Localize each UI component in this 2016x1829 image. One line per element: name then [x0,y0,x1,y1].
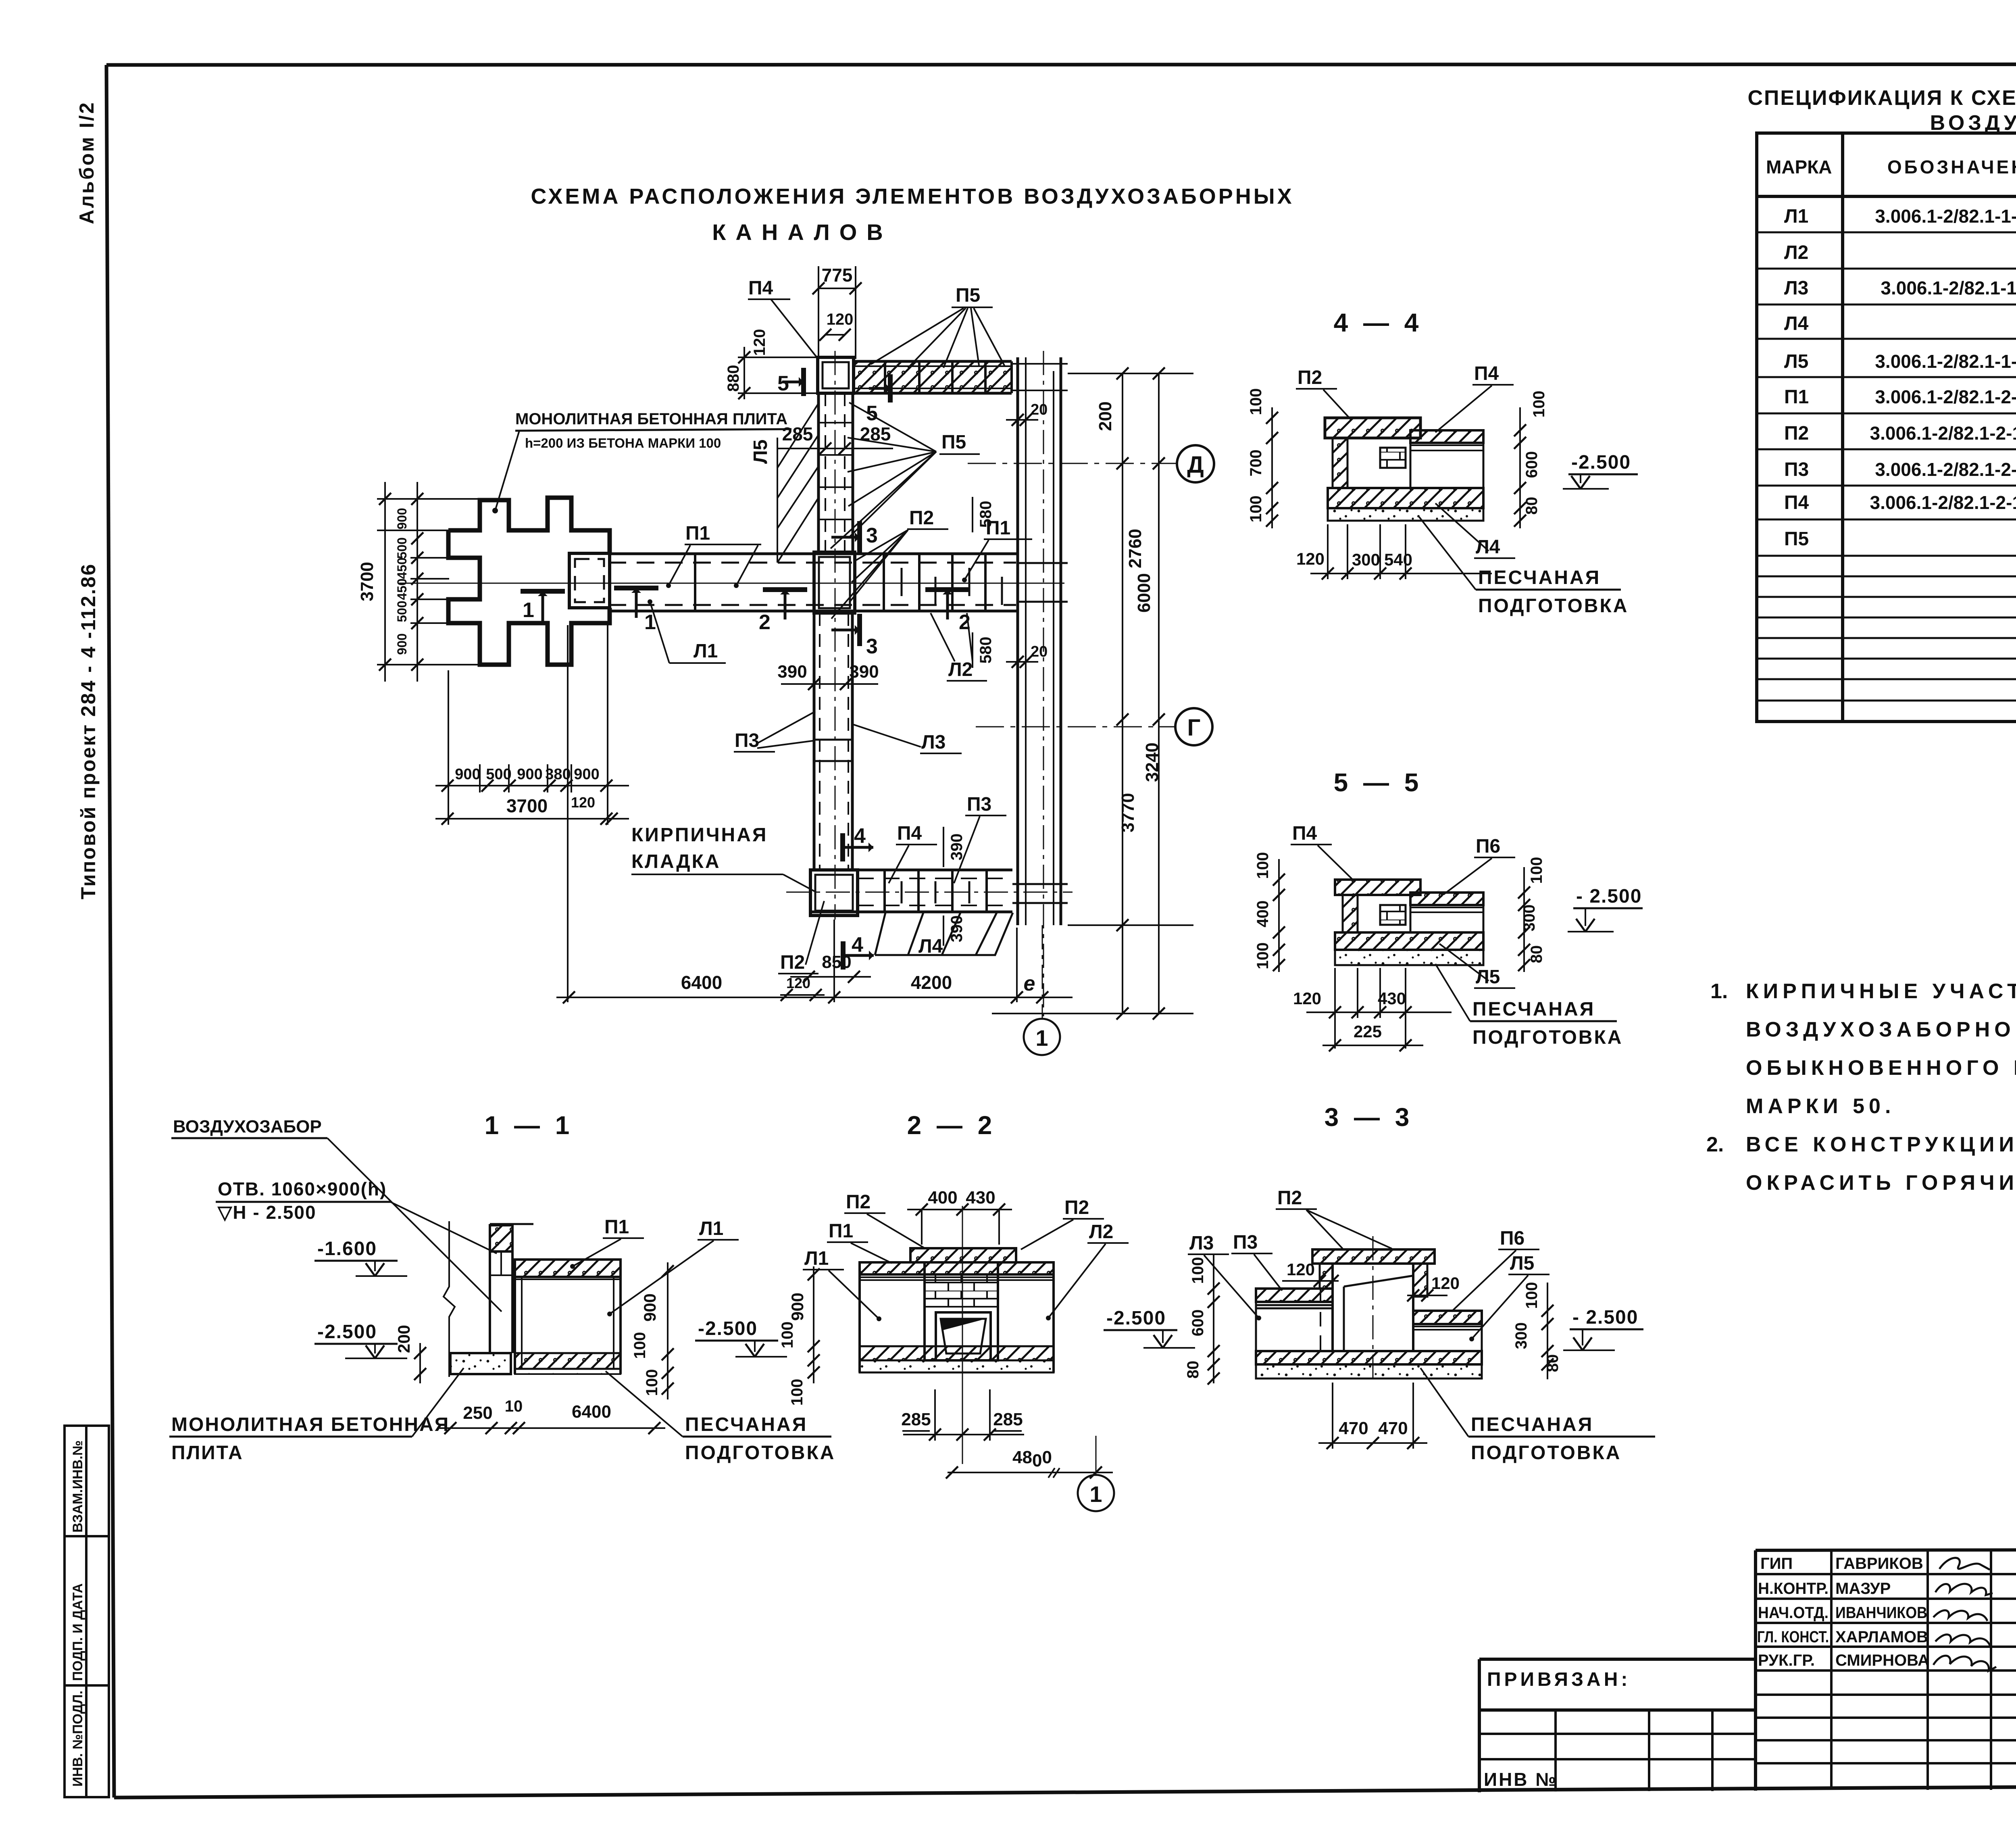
svg-text:3.006.1-2/82.1-2-1.0-018: 3.006.1-2/82.1-2-1.0-018 [1870,492,2016,513]
lower channel left end box [810,870,858,916]
svg-text:П3: П3 [735,730,759,751]
cut mark 3 pair [857,521,862,553]
section 5-5 top plate P4 [1335,880,1420,895]
svg-text:П2: П2 [909,507,934,529]
svg-text:80: 80 [1528,945,1545,964]
section 4-4 brick block [1380,448,1406,468]
svg-text:285: 285 [782,423,813,444]
svg-text:П3: П3 [1233,1232,1258,1253]
svg-text:ГИП: ГИП [1760,1555,1793,1572]
svg-text:ВСЕ КОНСТРУКЦИИ СОПРИКАСАЮЩИЕС: ВСЕ КОНСТРУКЦИИ СОПРИКАСАЮЩИЕСЯ С ГРУНТО… [1746,1133,2016,1156]
svg-text:Н.КОНТР.: Н.КОНТР. [1758,1580,1829,1598]
svg-text:МАРКА: МАРКА [1766,156,1832,177]
main bottom dim line 6400/4200 [556,920,1073,1002]
svg-text:430: 430 [1378,989,1406,1008]
section 3-3 dims 470 470 [1318,1442,1427,1444]
section 2-2 sand layer [860,1360,1054,1372]
svg-text:500: 500 [395,537,409,559]
section 3-3 plate P3 left [1256,1289,1333,1302]
svg-text:250: 250 [463,1403,492,1423]
svg-text:4: 4 [854,824,866,848]
svg-text:6400: 6400 [681,972,722,993]
section 5-5 bottom slab [1335,932,1483,950]
svg-text:120: 120 [1296,549,1325,568]
svg-text:3240: 3240 [1142,742,1162,782]
svg-text:390: 390 [948,916,966,943]
svg-text:ОБЫКНОВЕННОГО КИРПИЧА МАРКИ 10: ОБЫКНОВЕННОГО КИРПИЧА МАРКИ 100 НА РАСТВ… [1746,1056,2016,1080]
svg-text:Л3: Л3 [1189,1233,1214,1254]
svg-text:П3: П3 [967,794,991,815]
title block names table [1479,1550,2016,1791]
margin stamp block [65,1426,109,1797]
section 3-3 top plate P2 [1312,1249,1435,1264]
svg-text:Л1: Л1 [694,640,718,662]
cut mark 1 pair [521,589,565,594]
svg-text:20: 20 [1031,643,1048,660]
svg-text:4200: 4200 [911,972,952,993]
svg-text:ИВАНЧИКОВ: ИВАНЧИКОВ [1835,1604,1927,1622]
dim 390 390 at vertical channel [781,683,878,685]
svg-text:200: 200 [1095,401,1115,431]
svg-text:ПЛИТА: ПЛИТА [171,1442,244,1464]
svg-text:П5: П5 [1784,528,1809,550]
svg-text:МОНОЛИТНАЯ БЕТОННАЯ: МОНОЛИТНАЯ БЕТОННАЯ [171,1414,450,1435]
svg-text:Л4: Л4 [1784,313,1809,334]
section 3-3 shaft verticals [1331,1264,1334,1351]
vertical channel centerline [835,351,836,920]
left vertical dim chain of shaft [377,482,480,682]
svg-text:Л2: Л2 [948,659,973,680]
svg-text:ПРИВЯЗАН:: ПРИВЯЗАН: [1487,1669,1631,1690]
svg-text:500: 500 [486,766,511,783]
svg-text:ПОДГОТОВКА: ПОДГОТОВКА [1472,1027,1623,1048]
section 2-2 brick column [925,1262,998,1360]
svg-text:1: 1 [1035,1025,1048,1051]
section 5-5 bottom dims [1306,1011,1452,1013]
section 1-1 sand layer [515,1369,621,1374]
air intake shaft outline [448,498,610,665]
svg-text:3: 3 [866,524,878,547]
svg-text:80: 80 [1544,1354,1562,1372]
plate row P5 at top [854,360,1012,363]
svg-text:СПЕЦИФИКАЦИЯ К СХЕМЕ РАСПОЛОЖЕ: СПЕЦИФИКАЦИЯ К СХЕМЕ РАСПОЛОЖЕНИЯ ЭЛЕМЕН… [1747,86,2016,110]
svg-text:3700: 3700 [506,795,548,816]
section 2-2 left dims [813,1266,814,1383]
junction box at crossing [814,552,855,613]
specification table texts [1766,151,2016,190]
svg-text:Л2: Л2 [1784,242,1808,263]
channel joint dashes [902,568,1002,903]
svg-text:ОБОЗНАЧЕНИЕ: ОБОЗНАЧЕНИЕ [1887,156,2016,177]
svg-text:4800: 4800 [1012,1447,1052,1470]
svg-text:ВОЗДУХОЗАБОРНЫХ КАНАЛОВ .: ВОЗДУХОЗАБОРНЫХ КАНАЛОВ . [1930,111,2016,135]
svg-text:НАЧ.ОТД.: НАЧ.ОТД. [1758,1604,1829,1622]
section 5-5 left wall [1343,895,1358,932]
svg-text:700: 700 [1247,450,1265,477]
svg-text:900: 900 [788,1293,807,1321]
svg-text:-2.500: -2.500 [317,1321,377,1343]
svg-text:Л1: Л1 [804,1248,829,1269]
cut mark 5 pair [801,368,806,396]
svg-text:- 2.500: - 2.500 [1572,1307,1638,1328]
axis 1 circle [1042,925,1043,1019]
vertical channel lower run [813,611,816,870]
svg-text:ВЗАМ.ИНВ.№: ВЗАМ.ИНВ.№ [70,1440,85,1533]
svg-text:390: 390 [777,662,807,682]
svg-text:П1: П1 [1784,386,1809,408]
svg-text:3: 3 [866,635,878,658]
section 5-5 left dims [1278,859,1280,972]
svg-text:ПЕСЧАНАЯ: ПЕСЧАНАЯ [1471,1414,1593,1435]
svg-text:Л5: Л5 [750,440,771,464]
svg-text:120: 120 [571,794,595,811]
svg-text:КАНАЛОВ: КАНАЛОВ [712,219,892,245]
svg-text:П3: П3 [1784,459,1809,480]
svg-text:300: 300 [1512,1322,1530,1349]
svg-text:КЛАДКА: КЛАДКА [631,851,721,872]
section 3-3 bottom slab [1256,1351,1482,1364]
svg-text:Л5: Л5 [1476,966,1500,988]
svg-text:ОТВ. 1060×900(h): ОТВ. 1060×900(h) [218,1178,387,1199]
section 4-4 right dims [1519,407,1521,528]
svg-text:Л1: Л1 [1784,206,1808,227]
svg-text:Л1: Л1 [699,1218,723,1239]
svg-text:ВОЗДУХОЗАБОРНОЙ ШАХТЫ ВЫПОЛНЯТ: ВОЗДУХОЗАБОРНОЙ ШАХТЫ ВЫПОЛНЯТЬ ИЗ ГЛИНЯ… [1746,1018,2016,1041]
svg-text:100: 100 [1523,1282,1541,1309]
svg-text:e: e [1024,972,1035,995]
svg-text:2: 2 [959,611,971,634]
section 2-2 plate row P1 [860,1262,1054,1274]
section 2-2 bottom slab [860,1346,1054,1360]
svg-text:100: 100 [643,1369,661,1396]
svg-text:ПОДГОТОВКА: ПОДГОТОВКА [685,1442,835,1464]
svg-text:ПОДГОТОВКА: ПОДГОТОВКА [1478,595,1629,617]
svg-text:1.: 1. [1710,980,1728,1003]
section 1-1 monolithic slab [450,1353,511,1374]
svg-text:100: 100 [788,1379,806,1406]
svg-text:П2: П2 [780,952,805,973]
svg-text:225: 225 [1354,1022,1382,1041]
section 5-5 plate P6 [1410,893,1483,905]
svg-text:КИРПИЧНЫЕ УЧАСТКИ КАНАЛОВ И ЦО: КИРПИЧНЫЕ УЧАСТКИ КАНАЛОВ И ЦОКОЛЬНУЮ ЧА… [1746,980,2016,1003]
svg-text:П6: П6 [1476,836,1500,857]
svg-text:Л2: Л2 [1089,1221,1113,1243]
svg-text:ПЕСЧАНАЯ: ПЕСЧАНАЯ [685,1414,808,1435]
svg-text:10: 10 [505,1397,523,1415]
wall gap dim 20 lower [1006,661,1038,663]
section 1-1 right dims [667,1262,669,1399]
svg-text:ПОДП. И ДАТА: ПОДП. И ДАТА [70,1583,85,1681]
svg-text:ГАВРИКОВ: ГАВРИКОВ [1835,1555,1923,1572]
lower channel to the right [810,869,1012,872]
svg-text:600: 600 [1523,451,1541,478]
P4 end box at top of vertical channel [818,357,854,393]
svg-text:390: 390 [849,662,879,682]
svg-text:430: 430 [966,1188,995,1208]
svg-text:Л4: Л4 [918,936,943,957]
section 5-5 brick block [1380,905,1406,925]
svg-text:470: 470 [1339,1418,1368,1438]
svg-text:П4: П4 [1292,823,1317,844]
svg-text:300: 300 [1352,550,1380,569]
section 3-3 funnel [1320,1289,1321,1353]
notes [1706,980,2016,1195]
svg-text:80: 80 [1523,497,1541,515]
svg-text:4 — 4: 4 — 4 [1334,308,1423,337]
svg-text:ХАРЛАМОВ: ХАРЛАМОВ [1835,1628,1928,1646]
svg-text:П2: П2 [846,1191,871,1213]
svg-text:ВОЗДУХОЗАБОР: ВОЗДУХОЗАБОР [173,1117,322,1137]
svg-text:600: 600 [1189,1310,1207,1337]
top dims 775 / 120 / 880 [738,266,856,399]
svg-text:ПЕСЧАНАЯ: ПЕСЧАНАЯ [1478,567,1601,588]
svg-text:285: 285 [860,423,891,444]
svg-text:- 2.500: - 2.500 [1576,886,1642,907]
svg-text:775: 775 [822,265,853,286]
section 1-1 dim 200 [419,1343,421,1383]
axis D circle [1177,445,1214,482]
svg-text:ИНВ. №ПОДЛ.: ИНВ. №ПОДЛ. [70,1691,85,1787]
svg-text:П1: П1 [604,1216,629,1238]
svg-text:П5: П5 [956,285,980,306]
svg-text:285: 285 [993,1410,1023,1429]
section 3-3 right dims [1547,1283,1548,1379]
svg-text:120: 120 [1287,1260,1315,1279]
svg-text:3.006.1-2/82.1-2-1.0-029: 3.006.1-2/82.1-2-1.0-029 [1870,423,2016,444]
svg-text:580: 580 [977,501,995,528]
svg-text:5: 5 [777,372,789,395]
svg-text:6400: 6400 [572,1402,611,1422]
section 1-1 bottom dims [439,1427,665,1429]
svg-text:2.: 2. [1706,1133,1724,1156]
svg-text:Л3: Л3 [921,732,946,753]
svg-text:900: 900 [395,508,409,529]
svg-text:Л3: Л3 [1784,277,1808,299]
svg-text:100: 100 [1247,388,1265,415]
svg-text:5: 5 [866,402,878,425]
section 2-2 axis line [962,1206,963,1464]
svg-text:120: 120 [1293,989,1321,1008]
svg-text:3.006.1-2/82.1-1-02.0-2: 3.006.1-2/82.1-1-02.0-2 [1875,351,2016,372]
svg-text:580: 580 [977,637,995,664]
svg-text:П4: П4 [897,823,922,844]
upper horizontal channel [608,553,1018,555]
svg-text:2760: 2760 [1125,529,1145,568]
svg-text:1: 1 [644,611,656,634]
svg-text:285: 285 [901,1410,931,1429]
svg-text:П4: П4 [748,277,773,299]
section 1-1 left extension with break [444,1221,455,1377]
svg-text:120: 120 [1431,1274,1460,1293]
svg-text:450: 450 [395,557,409,579]
svg-text:100: 100 [1247,496,1265,523]
svg-text:900: 900 [574,766,599,783]
axis D line [968,463,1176,464]
section 3-3 shaft walls hatched [1320,1264,1333,1289]
svg-text:400: 400 [928,1188,957,1208]
section 3-3 left dims [1213,1254,1214,1383]
svg-text:П2: П2 [1277,1187,1302,1209]
svg-text:1: 1 [523,599,534,622]
svg-text:1 — 1: 1 — 1 [485,1111,574,1140]
svg-text:П4: П4 [1474,363,1499,384]
section 2-2 dim 4800 [948,1472,1113,1473]
right dimension chain inner [992,373,1193,1014]
svg-text:100: 100 [1254,852,1272,879]
bottom dim chain under shaft [435,625,629,1002]
svg-text:120: 120 [751,329,768,356]
svg-text:ПОДГОТОВКА: ПОДГОТОВКА [1471,1442,1621,1464]
section 2-2 top plate P2 [910,1248,1016,1262]
section 4-4 top plate P2 [1325,418,1420,438]
svg-text:100: 100 [631,1332,649,1359]
svg-text:СМИРНОВА: СМИРНОВА [1835,1652,1929,1669]
channel entry box at shaft [569,553,610,608]
cut mark 2 pair [763,587,807,592]
cut mark 4 pair [840,833,845,861]
svg-text:3 — 3: 3 — 3 [1325,1103,1414,1132]
svg-text:Л5: Л5 [1784,351,1808,372]
section 4-4 plate P4 [1410,430,1483,443]
section 1-1 channel walls [514,1260,516,1374]
svg-text:Г: Г [1187,715,1201,741]
svg-text:380: 380 [545,766,571,783]
section 2-2 side walls [858,1262,861,1372]
svg-text:П1: П1 [829,1220,853,1242]
svg-text:ПЕСЧАНАЯ: ПЕСЧАНАЯ [1472,999,1595,1020]
section 3-3 plate P6 right [1413,1311,1482,1324]
svg-text:100: 100 [1528,857,1545,884]
section 3-3 sand layer [1256,1364,1482,1379]
svg-text:КИРПИЧНАЯ: КИРПИЧНАЯ [631,824,768,846]
dim 120 lower left [780,994,825,996]
svg-text:Д: Д [1187,452,1204,478]
channel axis centerline [399,583,1064,584]
svg-text:МАРКИ 50.: МАРКИ 50. [1746,1095,1895,1118]
svg-text:900: 900 [640,1293,659,1322]
svg-text:20: 20 [1031,401,1048,418]
svg-text:3.006.1-2/82.1-1-05. 0: 3.006.1-2/82.1-1-05. 0 [1881,277,2016,298]
svg-text:880: 880 [725,365,742,392]
svg-text:МАЗУР: МАЗУР [1835,1580,1891,1598]
signatures [1933,1558,1996,1671]
svg-text:1: 1 [1089,1481,1102,1507]
svg-text:П2: П2 [1297,367,1322,388]
svg-text:▽Н - 2.500: ▽Н - 2.500 [217,1202,317,1223]
building wall [1016,357,1019,925]
svg-text:-1.600: -1.600 [317,1238,377,1260]
svg-text:300: 300 [1520,905,1538,932]
axis G circle [1175,708,1212,745]
svg-text:450: 450 [395,578,409,600]
svg-text:МОНОЛИТНАЯ БЕТОННАЯ ПЛИТА: МОНОЛИТНАЯ БЕТОННАЯ ПЛИТА [515,410,787,428]
section 5-5 sand layer [1335,950,1483,965]
section 4-4 bottom slab [1328,488,1483,508]
svg-text:П1: П1 [685,523,710,544]
svg-text:3.006.1-2/82.1-2-2.0-02: 3.006.1-2/82.1-2-2.0-02 [1875,459,2016,480]
specification table grid [1757,133,2016,722]
section 2-2 trough box [936,1312,991,1360]
svg-text:Л5: Л5 [1510,1253,1534,1274]
svg-text:РУК.ГР.: РУК.ГР. [1758,1652,1815,1669]
svg-text:3.006.1-2/82.1-1-08.0-1: 3.006.1-2/82.1-1-08.0-1 [1875,206,2016,227]
svg-text:900: 900 [517,766,542,783]
section 3-3 axis [1372,1236,1374,1383]
svg-text:П6: П6 [1500,1228,1524,1249]
section 1-1 bottom slab [515,1353,621,1369]
svg-text:-2.500: -2.500 [1571,452,1631,473]
svg-text:3700: 3700 [357,562,377,601]
section 2-2 top dims 400 430 [921,1210,923,1245]
svg-text:СХЕМА РАСПОЛОЖЕНИЯ ЭЛЕМЕНТОВ В: СХЕМА РАСПОЛОЖЕНИЯ ЭЛЕМЕНТОВ ВОЗДУХОЗАБО… [531,184,1294,209]
svg-text:540: 540 [1384,550,1412,569]
svg-text:ОКРАСИТЬ ГОРЯЧИМ БИТУМОМ ЗА 2: ОКРАСИТЬ ГОРЯЧИМ БИТУМОМ ЗА 2 РАЗА. [1746,1171,2016,1195]
svg-text:Типовой проект 284 - 4 -112.8: Типовой проект 284 - 4 -112.86 [77,563,100,899]
svg-text:5 — 5: 5 — 5 [1334,768,1423,797]
svg-text:100: 100 [1530,391,1548,418]
svg-text:200: 200 [394,1325,413,1353]
svg-text:100: 100 [779,1322,796,1349]
section 2-2 axis circle 1 [1078,1475,1114,1511]
svg-text:470: 470 [1378,1418,1408,1438]
svg-text:900: 900 [455,766,480,783]
dim 850 [790,976,871,978]
wall gap dim 20 upper [1006,419,1038,421]
svg-text:120: 120 [827,311,854,328]
section 4-4 bottom dims [1310,573,1492,574]
section 4-4 left wall [1333,438,1347,488]
svg-text:-2.500: -2.500 [1106,1308,1166,1329]
section 1-1 channel top plate P1 [515,1260,621,1277]
svg-text:2 — 2: 2 — 2 [907,1111,996,1140]
svg-text:Л4: Л4 [1476,536,1500,558]
section 1-1 wall [490,1223,533,1225]
svg-text:900: 900 [395,633,409,655]
section 2-2 dims 285 285 [903,1434,1024,1435]
svg-text:П5: П5 [941,432,966,453]
title block [1479,1549,2016,1792]
leader fan to L4 [875,913,1013,955]
svg-text:П4: П4 [1784,492,1809,513]
svg-text:100: 100 [1254,943,1272,970]
svg-text:500: 500 [395,601,409,622]
svg-text:100: 100 [1189,1257,1207,1284]
section 4-4 left dims [1271,407,1273,528]
svg-text:-2.500: -2.500 [698,1318,758,1339]
svg-text:3.006.1-2/82.1-2-2.0-13: 3.006.1-2/82.1-2-2.0-13 [1875,386,2016,407]
svg-text:390: 390 [948,834,966,861]
svg-text:2: 2 [759,611,771,634]
svg-text:ИНВ №: ИНВ № [1484,1769,1558,1790]
svg-text:ГЛ. КОНСТ.: ГЛ. КОНСТ. [1757,1628,1829,1646]
section 5-5 right dims [1523,867,1525,972]
axis G line [976,726,1175,728]
svg-text:400: 400 [1254,901,1272,928]
vertical channel upper run [817,393,820,554]
svg-text:П2: П2 [1064,1197,1089,1218]
svg-text:h=200 ИЗ БЕТОНА МАРКИ 100: h=200 ИЗ БЕТОНА МАРКИ 100 [525,436,721,450]
svg-text:6000: 6000 [1134,573,1154,613]
svg-text:Альбом I/2: Альбом I/2 [75,101,98,224]
svg-text:4: 4 [852,933,863,957]
svg-text:80: 80 [1184,1361,1202,1379]
svg-text:120: 120 [786,975,810,991]
svg-text:3770: 3770 [1118,793,1138,832]
section 4-4 sand layer [1328,508,1483,521]
svg-text:П2: П2 [1784,423,1809,444]
